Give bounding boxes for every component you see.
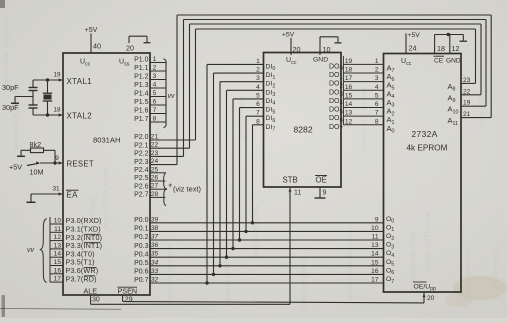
label Ucc of 8282 (286, 57, 297, 66)
svg-text:16: 16 (54, 267, 62, 274)
svg-text:+5V: +5V (408, 32, 421, 39)
svg-text:8: 8 (153, 116, 157, 123)
svg-text:cteni instrukce: cteni instrukce (237, 94, 246, 140)
svg-text:10: 10 (54, 218, 62, 225)
8282 pin 20 Ucc number (293, 45, 301, 54)
8282 DI pin numbers 1-8 (256, 58, 260, 125)
svg-text:20: 20 (427, 295, 435, 302)
address bus A8-A11 wires from P2.0-P2.3 over the top to EPROM (150, 15, 491, 165)
port P0 labels P0.0-P0.7 (134, 217, 149, 284)
svg-text:5: 5 (375, 92, 379, 99)
svg-text:P2.5: P2.5 (134, 175, 149, 182)
svg-text:19: 19 (53, 72, 61, 79)
svg-text:+5V: +5V (282, 32, 295, 39)
svg-text:22: 22 (463, 88, 471, 95)
label GND of 8282 (313, 57, 328, 64)
svg-text:10: 10 (371, 225, 379, 232)
svg-text:31: 31 (52, 186, 60, 193)
pin 31 EA with ground (27, 186, 79, 203)
svg-text:P0.3: P0.3 (134, 243, 149, 250)
2732A pin 24 number (409, 44, 417, 53)
svg-text:1: 1 (375, 58, 379, 65)
label 4k EPROM (407, 144, 448, 153)
svg-text:12: 12 (345, 118, 353, 125)
svg-text:P2.1: P2.1 (134, 142, 149, 149)
svg-text:29: 29 (125, 297, 133, 304)
2732A output pin numbers and O0-O7 labels (371, 216, 394, 285)
svg-text:GND: GND (446, 58, 461, 65)
wire PSEN to OE/Vpp of 2732A (123, 292, 426, 303)
svg-text:+5V: +5V (9, 163, 22, 172)
2732A OE/Vpp label and pin 20 (413, 282, 436, 302)
svg-text:17: 17 (371, 277, 379, 284)
2732A address pin numbers 1-8 (375, 58, 379, 125)
svg-text:P1.7: P1.7 (134, 116, 149, 123)
svg-text:18: 18 (53, 107, 61, 114)
8282 DO0-DO7 labels (329, 63, 344, 132)
svg-text:RESET: RESET (67, 160, 95, 169)
svg-text:17: 17 (345, 75, 353, 82)
svg-text:4: 4 (153, 82, 157, 89)
svg-text:STB: STB (283, 176, 298, 185)
svg-text:P0.4: P0.4 (134, 251, 149, 258)
svg-text:XTAL2: XTAL2 (67, 112, 93, 121)
svg-text:12: 12 (452, 44, 460, 53)
svg-text:19: 19 (345, 58, 353, 65)
svg-text:pamet EPROM 4k: pamet EPROM 4k (223, 242, 232, 300)
svg-text:9: 9 (55, 155, 59, 162)
svg-text:PSEN: PSEN (118, 287, 138, 296)
wires DO to 2732A address pins (343, 64, 383, 124)
svg-text:P0.0: P0.0 (134, 217, 149, 224)
svg-text:15: 15 (371, 259, 379, 266)
svg-text:P2.7: P2.7 (134, 192, 149, 199)
svg-text:6: 6 (153, 99, 157, 106)
2732A A7-A0 labels (387, 63, 395, 134)
capacitor C2 30pF (2, 97, 38, 116)
svg-text:obsahu pam programu: obsahu pam programu (1, 18, 10, 90)
svg-text:17: 17 (54, 276, 62, 283)
data bus wires DI0-DI7 down to P0 bus with junctions (205, 64, 263, 284)
svg-text:2: 2 (375, 67, 379, 74)
resistor R1 8k2 (17, 140, 57, 165)
svg-text:11: 11 (54, 226, 61, 233)
svg-text:16: 16 (371, 268, 379, 275)
svg-text:P2.4: P2.4 (134, 167, 149, 174)
svg-text:P1.4: P1.4 (134, 91, 149, 98)
svg-text:mikropocitac 8051: mikropocitac 8051 (408, 232, 417, 290)
svg-text:P1.2: P1.2 (134, 74, 149, 81)
svg-text:14: 14 (345, 101, 353, 108)
svg-text:27: 27 (151, 183, 159, 190)
svg-text:vystupni port byte: vystupni port byte (165, 244, 174, 300)
svg-text:vv: vv (168, 93, 176, 100)
wire ALE to STB of 8282 (91, 188, 290, 304)
pin 40 Ucc of U1 (91, 41, 101, 53)
svg-text:2: 2 (153, 65, 157, 72)
svg-text:(viz text): (viz text) (173, 185, 201, 194)
svg-text:P2.0: P2.0 (134, 134, 149, 141)
power +5V supply to 8031 pin 40 (85, 27, 98, 41)
label Ucc (80, 59, 91, 68)
port P0 pin numbers 39-32 (151, 216, 159, 283)
svg-text:30: 30 (92, 297, 100, 304)
svg-text:OE: OE (316, 176, 327, 185)
svg-text:P0.6: P0.6 (134, 269, 149, 276)
svg-text:11: 11 (294, 190, 301, 197)
label Uss (119, 59, 130, 68)
svg-text:6: 6 (375, 101, 379, 108)
svg-text:15: 15 (54, 259, 62, 266)
label 8031AH (93, 136, 120, 145)
svg-text:4k EPROM: 4k EPROM (407, 144, 448, 153)
note *(viz text) (169, 182, 201, 194)
label 2732A (412, 129, 438, 139)
P2.4-P2.7 stub wires and note brace (150, 173, 167, 206)
2732A right side pins A8-A11 (448, 77, 471, 127)
8282 pin 10 GND with ground rail hook (320, 37, 342, 55)
svg-text:8: 8 (375, 118, 379, 125)
svg-text:obsahu pam programu: obsahu pam programu (345, 228, 354, 300)
svg-text:1: 1 (153, 56, 157, 63)
power +5V to 8282 pin 20 (282, 32, 295, 56)
svg-text:P2.2: P2.2 (134, 151, 149, 158)
pin 30 ALE (84, 287, 100, 304)
svg-text:24: 24 (409, 44, 417, 53)
svg-text:adresa ALE P2 port: adresa ALE P2 port (359, 88, 368, 150)
stray scan line bottom left (0, 307, 121, 310)
svg-text:15: 15 (345, 92, 353, 99)
svg-text:14: 14 (54, 251, 62, 258)
svg-text:3: 3 (153, 73, 157, 80)
P3 bus collector brace with vv mark (27, 219, 47, 283)
power +5V to 2732A pin 24 (406, 32, 420, 54)
8282 OE label and pin 9 with ground (315, 176, 328, 199)
svg-text:40: 40 (93, 42, 101, 51)
port P3 labels with alternate functions (66, 216, 103, 283)
svg-text:8282: 8282 (294, 125, 313, 135)
label 8282 (294, 125, 313, 135)
pin 9 RESET (40, 155, 94, 169)
port P2 labels P2.0-P2.7 (134, 134, 149, 198)
2732A pin 12 GND stub (450, 35, 460, 54)
svg-text:12: 12 (54, 234, 62, 241)
port P2 pin wires and numbers 21-28 (151, 134, 159, 198)
EPROM U3 2732A body (384, 54, 462, 293)
label CE of 2732A (434, 56, 445, 64)
svg-text:+5V: +5V (85, 27, 98, 34)
svg-text:10M: 10M (30, 168, 44, 177)
port P3 pin wires, collector rail and numbers 10-17 (50, 217, 63, 283)
svg-text:P1.0: P1.0 (134, 57, 149, 64)
2732A pin 18 CE stub (435, 35, 445, 54)
svg-text:XTAL1: XTAL1 (67, 77, 93, 86)
pin 29 PSEN (118, 287, 138, 304)
data bus P0.0-P0.7 horizontal wires to EPROM outputs (150, 223, 384, 283)
svg-text:3: 3 (375, 75, 379, 82)
svg-text:14: 14 (371, 251, 379, 258)
svg-text:signal PSEN aktivni: signal PSEN aktivni (101, 167, 110, 230)
port P1 pin wires and numbers 1-8 (150, 56, 166, 123)
ground stub for capacitors (11, 97, 33, 104)
svg-text:30pF: 30pF (2, 103, 19, 112)
svg-text:18: 18 (437, 44, 445, 53)
svg-text:9: 9 (323, 190, 327, 197)
svg-text:26: 26 (151, 175, 159, 182)
label Ucc of 2732A (401, 58, 412, 67)
svg-text:P1.3: P1.3 (134, 82, 149, 89)
svg-text:GND: GND (313, 57, 328, 64)
svg-text:8031AH: 8031AH (93, 136, 120, 145)
svg-text:5: 5 (153, 90, 157, 97)
svg-text:ALE: ALE (84, 287, 98, 296)
svg-text:P0.7: P0.7 (134, 277, 149, 284)
svg-text:P2.3: P2.3 (134, 159, 149, 166)
svg-text:P1.6: P1.6 (134, 108, 149, 115)
svg-text:19: 19 (463, 100, 471, 107)
pin 19 XTAL1 (33, 72, 92, 87)
CE and GND tie with ground hook (435, 33, 467, 41)
svg-text:16: 16 (345, 84, 353, 91)
8282 DI0-DI7 labels (266, 63, 276, 132)
svg-text:13: 13 (371, 242, 379, 249)
svg-text:7: 7 (153, 107, 157, 114)
svg-text:9: 9 (375, 216, 379, 223)
svg-text:vv: vv (27, 247, 35, 254)
pin 20 Uss of U1 with ground rail hook (126, 36, 151, 52)
svg-text:P0.5: P0.5 (134, 260, 149, 267)
svg-text:25: 25 (151, 166, 159, 173)
svg-text:P0.2: P0.2 (134, 234, 149, 241)
svg-text:4: 4 (375, 84, 379, 91)
pin 18 XTAL2 (33, 107, 92, 121)
svg-text:21: 21 (463, 111, 471, 118)
P1 bus collector brace with vv mark (164, 59, 176, 129)
svg-text:*: * (169, 182, 173, 192)
svg-text:CE: CE (434, 58, 444, 65)
svg-text:P1.1: P1.1 (134, 65, 149, 72)
8282 STB label and pin 11 (283, 176, 302, 197)
svg-text:P2.6: P2.6 (134, 183, 149, 190)
svg-text:13: 13 (345, 110, 353, 117)
svg-text:30pF: 30pF (2, 83, 19, 92)
latch U2 8282 body (264, 53, 342, 188)
8282 DO pin rail and numbers 19-12 (343, 56, 352, 125)
svg-text:2732A: 2732A (412, 129, 438, 139)
svg-text:registr DPTR data: registr DPTR data (423, 212, 432, 270)
crystal X1 (43, 78, 52, 116)
svg-text:13: 13 (54, 242, 62, 249)
svg-text:7: 7 (375, 110, 379, 117)
svg-text:28: 28 (151, 191, 159, 198)
svg-text:23: 23 (463, 77, 471, 84)
port P1 labels P1.0-P1.7 (134, 57, 149, 124)
svg-text:11: 11 (372, 234, 379, 241)
op: microcontroller U1 8031AH body (63, 53, 150, 295)
capacitor C1 30pF (2, 80, 38, 97)
label GND of 2732A (446, 58, 461, 65)
svg-text:EA: EA (67, 191, 79, 200)
svg-text:20: 20 (126, 43, 134, 52)
svg-text:18: 18 (345, 67, 353, 74)
+5V supply arrow with 10M label (9, 161, 43, 176)
svg-text:P0.1: P0.1 (134, 226, 149, 233)
svg-text:P1.5: P1.5 (134, 99, 149, 106)
